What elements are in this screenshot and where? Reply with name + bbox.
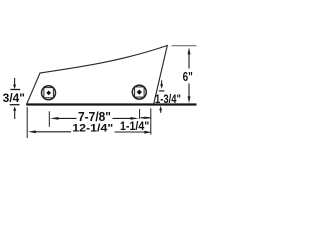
6" dimension (right) (172, 46, 197, 103)
12-1/4" dimension (27, 107, 152, 138)
1-3/4" dimension (155, 80, 181, 113)
svg-text:3/4": 3/4" (3, 93, 25, 105)
1-1/4" dimension (120, 108, 151, 134)
baseline (thick bottom edge + extension) (26, 103, 196, 105)
svg-text:1-3/4": 1-3/4" (155, 92, 181, 106)
svg-text:6": 6" (183, 69, 193, 84)
svg-text:12-1/4": 12-1/4" (72, 123, 113, 135)
blade body (27, 46, 168, 105)
7-7/8" dimension (49, 109, 139, 127)
hole 2 (carriage bolt) (132, 85, 146, 99)
hole 1 (carriage bolt) (42, 86, 56, 100)
3/4" dimension (left) (3, 78, 25, 119)
